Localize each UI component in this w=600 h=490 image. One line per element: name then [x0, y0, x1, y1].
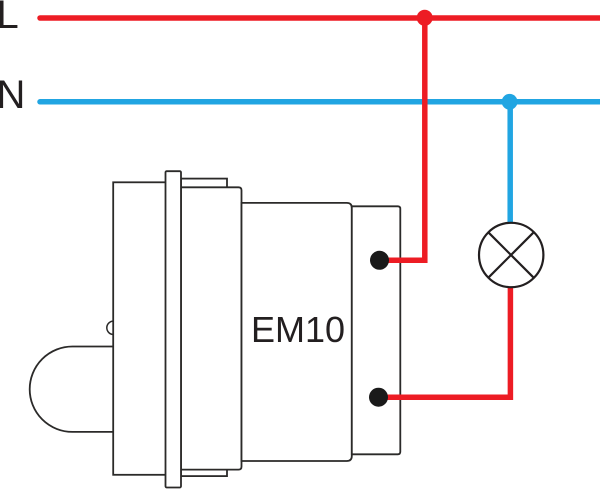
wire red from L down to top terminal — [379, 18, 425, 260]
wire red from bottom terminal to lamp bottom — [379, 286, 511, 397]
sensor flange tab — [181, 179, 227, 477]
sensor terminal block — [352, 206, 401, 454]
svg-text:N: N — [0, 73, 25, 117]
wire N line (blue, neutral) — [40, 99, 600, 105]
junction dot on L line — [417, 10, 433, 26]
sensor lens dome — [30, 347, 114, 432]
terminal dot L (top) — [370, 251, 389, 270]
wire L line (red, phase) — [40, 15, 600, 21]
sensor screw post — [166, 171, 182, 487]
junction dot on N line — [502, 94, 518, 110]
lamp E1 cross — [489, 233, 534, 278]
terminal dot load (bottom) — [369, 388, 388, 407]
sensor body U1 — [242, 203, 352, 461]
svg-text:L: L — [0, 0, 19, 37]
wire blue drop from N to lamp — [507, 102, 513, 226]
sensor back plate — [113, 182, 180, 475]
svg-text:EM10: EM10 — [251, 309, 345, 350]
lamp E1 circle — [479, 223, 543, 287]
sensor LED bump — [107, 321, 120, 334]
sensor collar — [181, 187, 242, 469]
